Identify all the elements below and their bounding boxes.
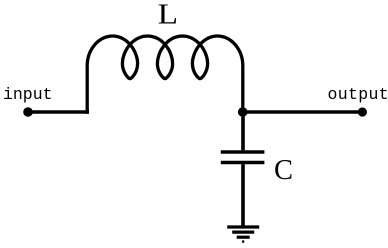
svg-text:C: C: [274, 155, 293, 186]
svg-text:L: L: [158, 0, 178, 30]
svg-text:output: output: [328, 85, 388, 104]
svg-text:input: input: [3, 85, 53, 104]
